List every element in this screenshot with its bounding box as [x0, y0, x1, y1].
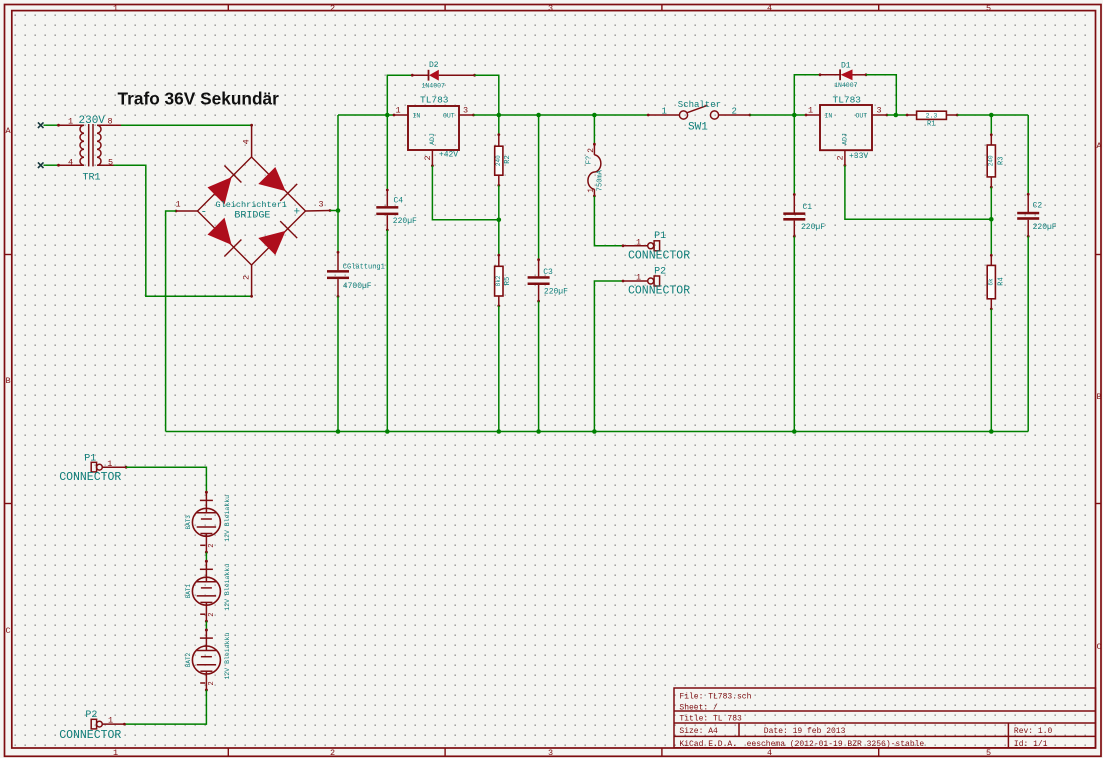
svg-text:3: 3 [548, 3, 553, 13]
svg-text:1: 1 [636, 238, 641, 248]
wire ADJ U1 feedback [432, 166, 498, 220]
svg-text:1: 1 [113, 3, 118, 13]
svg-text:IN: IN [825, 113, 833, 120]
junction bus x991 [989, 429, 994, 434]
wire C3 to bus [538, 301, 540, 431]
junction bridge output [336, 208, 341, 213]
svg-text:IN: IN [413, 113, 421, 120]
svg-text:+33V: +33V [849, 152, 868, 161]
svg-text:4: 4 [767, 748, 772, 758]
junction bus x794 [792, 429, 797, 434]
svg-text:ADJ: ADJ [842, 133, 849, 145]
svg-text:2: 2 [330, 3, 335, 13]
svg-text:CONNECTOR: CONNECTOR [59, 729, 121, 742]
junction C3 top [536, 113, 541, 118]
svg-text:A: A [6, 126, 12, 136]
svg-text:BAT1: BAT1 [185, 584, 192, 599]
svg-text:Rev: 1.0: Rev: 1.0 [1014, 727, 1053, 736]
svg-text:240: 240 [987, 155, 994, 166]
svg-text:CONNECTOR: CONNECTOR [59, 471, 121, 484]
svg-text:1: 1 [636, 273, 641, 283]
connector P1 mid [622, 231, 691, 263]
svg-text:BAT3: BAT3 [185, 515, 192, 530]
wire BAT3-BAT1 [205, 552, 207, 561]
junction bus x499 [497, 429, 502, 434]
no-connect flag left bottom [38, 162, 44, 168]
junction R3 top [989, 113, 994, 118]
junction adj node [497, 218, 502, 223]
svg-text:ADJ: ADJ [429, 133, 436, 145]
svg-text:Date: 19 feb 2013: Date: 19 feb 2013 [764, 727, 846, 736]
resistor R1 2.3 [906, 111, 959, 128]
wire R3 branch [990, 115, 992, 135]
wire main rail mid [474, 114, 649, 116]
svg-text:P2: P2 [654, 266, 666, 277]
svg-text:2: 2 [242, 275, 252, 280]
svg-text:R5: R5 [504, 277, 512, 285]
svg-text:P1: P1 [84, 454, 96, 465]
junction bus x338 [336, 429, 341, 434]
junction fuse top [592, 113, 597, 118]
svg-text:2: 2 [330, 748, 335, 758]
wire node A lower to bus [337, 297, 339, 432]
svg-text:Gleichrichter1: Gleichrichter1 [216, 200, 287, 210]
junction bus x539 [536, 429, 541, 434]
resistor R2 [495, 133, 512, 187]
battery BAT1 [185, 560, 231, 623]
svg-text:2: 2 [587, 148, 596, 153]
svg-text:2: 2 [208, 681, 216, 685]
connector P1 bottom [59, 454, 127, 485]
svg-text:8k2: 8k2 [495, 275, 502, 286]
no-connect flag left top [38, 122, 44, 128]
svg-text:4: 4 [242, 139, 252, 144]
svg-text:C2: C2 [1033, 201, 1043, 210]
wire TR1 pin1 [44, 124, 59, 126]
svg-text:12V Bleiakku: 12V Bleiakku [224, 495, 231, 542]
svg-text:B: B [1097, 392, 1102, 402]
wire P1 bottom to battery chain [126, 467, 206, 492]
svg-text:Sheet: /: Sheet: / [679, 704, 718, 713]
diode bottom-left [208, 218, 232, 245]
svg-text:Size: A4: Size: A4 [679, 727, 718, 736]
svg-text:TL783: TL783 [833, 94, 862, 105]
wire C3 branch [538, 115, 540, 260]
wire TR1 pin4 [44, 164, 59, 166]
svg-text:220µF: 220µF [544, 288, 568, 297]
svg-text:3: 3 [548, 748, 553, 758]
svg-text:P2: P2 [85, 710, 97, 721]
svg-text:5: 5 [108, 158, 113, 168]
transformer TR1 [57, 115, 121, 184]
svg-text:1: 1 [587, 188, 596, 193]
wire C2 branch [1027, 115, 1029, 194]
svg-text:1N4007: 1N4007 [422, 82, 446, 89]
junction C1/D1 [792, 113, 797, 118]
resistor R4 [987, 254, 1005, 310]
battery BAT3 [185, 491, 231, 554]
wire SW1 to U2 [750, 114, 806, 116]
wire P2 mid branch [594, 281, 623, 432]
svg-text:2.3: 2.3 [926, 112, 938, 119]
resistor R5 [495, 254, 512, 308]
diode bottom-right [258, 231, 285, 255]
capacitor CGlaettung1 [327, 251, 385, 298]
svg-text:3: 3 [877, 106, 882, 116]
junction bus x387 [385, 429, 390, 434]
svg-text:B: B [6, 376, 11, 386]
svg-text:4: 4 [68, 158, 73, 168]
junction R2 top [497, 113, 502, 118]
svg-text:OUT: OUT [856, 113, 868, 120]
svg-text:C3: C3 [543, 268, 553, 277]
svg-text:A: A [1097, 141, 1103, 151]
svg-text:12V Bleiakku: 12V Bleiakku [224, 633, 231, 680]
svg-text:1: 1 [68, 117, 73, 127]
svg-text:220µF: 220µF [1033, 223, 1057, 232]
capacitor C2 [1017, 193, 1057, 238]
svg-text:R4: R4 [998, 277, 1006, 285]
diode D1 1N4007 [819, 61, 868, 89]
svg-text:220µF: 220µF [393, 217, 417, 226]
svg-text:OUT: OUT [443, 113, 455, 120]
svg-text:1: 1 [396, 106, 401, 116]
wire ground bus [166, 431, 1029, 433]
wire R2 branch [498, 115, 500, 135]
regulator U1 TL783 [393, 95, 475, 168]
svg-text:1: 1 [108, 715, 113, 725]
svg-text:CONNECTOR: CONNECTOR [628, 250, 690, 263]
svg-text:1: 1 [107, 459, 112, 469]
svg-text:2: 2 [208, 544, 216, 548]
svg-text:220µF: 220µF [801, 223, 825, 232]
svg-text:2: 2 [423, 155, 433, 160]
junction bus x594 [592, 429, 597, 434]
svg-text:TR1: TR1 [83, 173, 101, 184]
svg-text:1: 1 [662, 107, 667, 117]
connector P2 mid [622, 266, 691, 297]
wire D1 bypass left [794, 75, 820, 115]
wire R1 to C2 corner [957, 114, 1028, 116]
svg-text:240: 240 [495, 155, 502, 166]
svg-text:Id: 1/1: Id: 1/1 [1014, 740, 1048, 749]
wire D1 bypass right [866, 75, 896, 115]
svg-text:BRIDGE: BRIDGE [234, 211, 270, 222]
svg-text:+42V: +42V [439, 151, 458, 160]
wire ADJ U2 feedback [845, 165, 991, 219]
svg-text:TL783: TL783 [420, 95, 449, 106]
junction C4 top [385, 113, 390, 118]
svg-text:230V: 230V [79, 115, 106, 127]
diode D2 1N4007 [411, 61, 476, 90]
svg-text:12V Bleiakku: 12V Bleiakku [224, 564, 231, 611]
wire R4 to bus [990, 309, 992, 432]
svg-text:F?: F? [585, 156, 593, 164]
wire R2 to adj node [498, 185, 500, 255]
wire BAT2 to P2 bottom [124, 690, 206, 724]
wire C1 branch [793, 115, 795, 195]
svg-text:SW1: SW1 [688, 121, 708, 133]
bridge rectifier Gleichrichter1 [175, 124, 332, 298]
wire D2 bypass left [387, 75, 412, 115]
svg-text:Schalter: Schalter [678, 100, 721, 110]
svg-text:1N4007: 1N4007 [834, 82, 858, 89]
svg-text:R1: R1 [927, 120, 935, 128]
svg-text:4: 4 [767, 3, 772, 13]
svg-text:C: C [6, 626, 11, 636]
svg-text:2: 2 [732, 107, 737, 117]
wire fuse to P1 [594, 196, 623, 246]
wire C4 branch upper [386, 115, 388, 190]
wire C4 branch lower to bus [386, 230, 388, 432]
regulator U2 TL783 [805, 94, 889, 167]
svg-text:3: 3 [319, 200, 324, 210]
svg-text:+: + [294, 207, 301, 219]
wire R5 to bus [498, 306, 500, 432]
wire main rail left [338, 114, 394, 116]
capacitor C1 [783, 193, 825, 238]
wire fuse branch [593, 115, 595, 144]
wire U2 out [887, 114, 907, 116]
svg-text:R2: R2 [504, 155, 512, 163]
battery BAT2 [185, 629, 231, 692]
svg-text:CGlättung1: CGlättung1 [343, 264, 385, 272]
svg-text:BAT2: BAT2 [185, 652, 192, 667]
diode top-left [208, 177, 232, 204]
wire BAT1-BAT2 [205, 621, 207, 630]
fuse F? 750mA [585, 143, 604, 198]
switch SW1 Schalter [647, 100, 752, 133]
svg-text:1: 1 [176, 200, 181, 210]
svg-text:CONNECTOR: CONNECTOR [628, 285, 690, 298]
svg-text:KiCad E.D.A. eeschema (2012-0: KiCad E.D.A. eeschema (2012-01-19 BZR 32… [679, 740, 924, 749]
svg-text:-: - [201, 207, 208, 219]
svg-text:Trafo 36V Sekundär: Trafo 36V Sekundär [118, 89, 280, 109]
svg-text:P1: P1 [654, 231, 666, 242]
svg-text:Title: TL 783: Title: TL 783 [679, 715, 742, 724]
wire bridge pin1 to ground bus [166, 211, 176, 432]
resistor R3 [987, 133, 1005, 188]
junction adj node 2 [989, 217, 994, 222]
diode top-right [258, 167, 285, 191]
svg-text:2: 2 [208, 612, 216, 616]
connector P2 bottom [59, 710, 126, 742]
svg-text:5: 5 [986, 748, 991, 758]
wire C1 to bus [793, 236, 795, 431]
title block [674, 688, 1096, 749]
svg-text:6k: 6k [987, 278, 994, 286]
svg-text:3: 3 [463, 106, 468, 116]
wire TR1 pin8 to bridge top [121, 124, 252, 126]
svg-text:C: C [1097, 642, 1102, 652]
wire TR1 pin5 to bridge bottom [114, 165, 252, 296]
svg-text:File: TL783.sch: File: TL783.sch [679, 693, 751, 702]
capacitor C4 [376, 189, 417, 232]
svg-text:D1: D1 [841, 61, 851, 70]
wire R3 to adj node 2 [990, 187, 992, 255]
wire C2 to bus [1027, 236, 1029, 431]
wire node A vertical upper [337, 115, 339, 252]
svg-text:1: 1 [808, 106, 813, 116]
svg-text:2: 2 [836, 155, 846, 160]
svg-text:C4: C4 [394, 196, 404, 205]
svg-text:1: 1 [113, 748, 118, 758]
svg-text:8: 8 [108, 117, 113, 127]
svg-text:D2: D2 [429, 61, 439, 70]
wire bridge pin3 to node A [330, 210, 338, 212]
svg-text:5: 5 [986, 3, 991, 13]
svg-text:C1: C1 [803, 203, 813, 212]
junction D1 right [894, 113, 899, 118]
capacitor C3 [528, 258, 569, 302]
svg-text:R3: R3 [998, 157, 1006, 165]
svg-text:750mA: 750mA [597, 169, 605, 191]
wire D2 bypass right [475, 75, 499, 115]
svg-text:4700µF: 4700µF [343, 282, 372, 291]
